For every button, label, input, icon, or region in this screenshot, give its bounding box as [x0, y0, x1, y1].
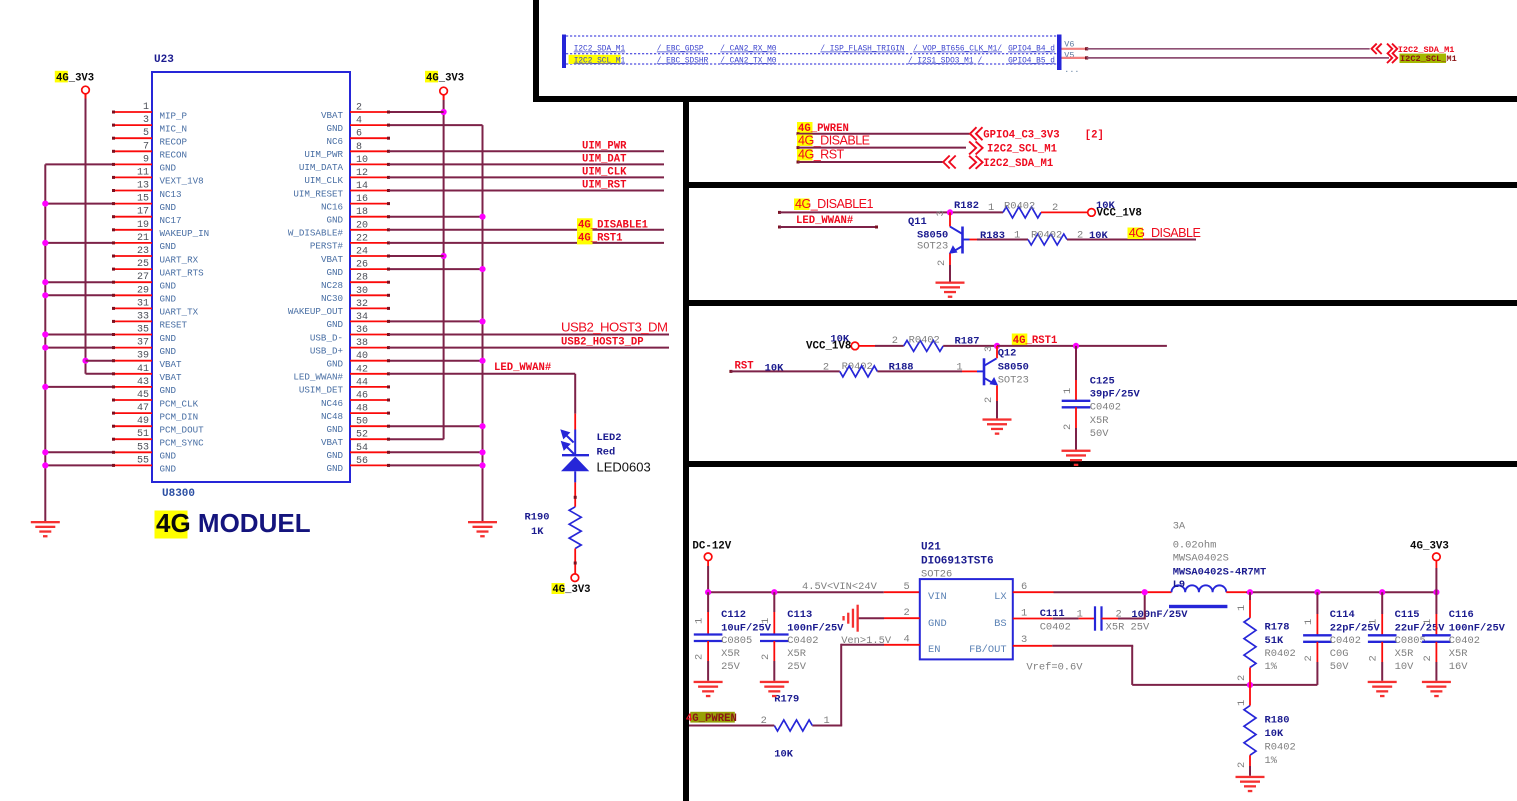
svg-text:GND: GND: [160, 163, 177, 174]
svg-text:UART_RX: UART_RX: [160, 254, 199, 265]
capacitor C125: [1062, 400, 1091, 402]
LED LED2 anode stub: [574, 414, 576, 430]
svg-text:PERST#: PERST#: [310, 241, 344, 252]
svg-text:24: 24: [356, 247, 368, 258]
svg-text:X5R: X5R: [1090, 415, 1109, 427]
capacitor C112 bottom stub: [707, 641, 709, 661]
capacitor C112: [694, 633, 723, 635]
capacitor C116 bottom stub: [1435, 642, 1437, 662]
svg-text:1: 1: [1077, 609, 1083, 621]
svg-text:UIM_RST: UIM_RST: [582, 180, 627, 192]
svg-text:20: 20: [356, 220, 368, 231]
svg-text:WAKEUP_IN: WAKEUP_IN: [160, 228, 210, 239]
svg-text:USIM_DET: USIM_DET: [299, 385, 344, 396]
wire VCC_1V8 to R187: [859, 345, 875, 347]
svg-text:LED_WWAN#: LED_WWAN#: [293, 372, 343, 383]
U23 pin 32 stub: [350, 307, 389, 309]
IC U23 body: [152, 72, 350, 482]
wire U23 pin 34 GND: [389, 320, 483, 322]
svg-text:2: 2: [983, 397, 995, 403]
wire U21 EN pin: [884, 644, 920, 646]
svg-text:55: 55: [137, 455, 149, 466]
U23 pin 23 stub: [113, 255, 152, 257]
wire U23 pin 39 VBAT: [86, 360, 114, 362]
junction dot Q12 collector: [994, 343, 1000, 349]
wire U23 pin 2 VBAT: [389, 111, 444, 113]
svg-text:18: 18: [356, 207, 368, 218]
svg-text:GND: GND: [160, 202, 177, 213]
capacitor C114 bottom stub: [1316, 642, 1318, 662]
svg-text:C0402: C0402: [1449, 635, 1480, 647]
svg-text:2: 2: [892, 335, 898, 347]
resistor R180 top stub: [1249, 685, 1251, 706]
LED LED2 cathode stub: [574, 482, 576, 506]
ground symbol C113: [760, 681, 789, 697]
U23 pin 13 stub: [113, 190, 152, 192]
svg-text:25V: 25V: [721, 661, 740, 673]
wire U23 pin 27 GND: [45, 281, 113, 283]
svg-text:Q12: Q12: [998, 348, 1017, 360]
svg-text:15: 15: [137, 194, 149, 205]
U23 pin 29 stub: [113, 294, 152, 296]
svg-text:26: 26: [356, 260, 368, 271]
wire VIN rail: [708, 591, 884, 593]
svg-text:2: 2: [823, 362, 829, 374]
svg-text:R0402: R0402: [1031, 230, 1062, 242]
junction dot Q11 collector: [947, 209, 953, 215]
U23 pin 27 stub: [113, 281, 152, 283]
ground symbol U21 GND pin: [842, 605, 858, 632]
junction dot left bus pin 55: [42, 462, 48, 468]
svg-text:LED0603: LED0603: [597, 460, 651, 475]
svg-text:10K: 10K: [765, 363, 784, 375]
wire RST to R188: [729, 370, 732, 373]
svg-text:31: 31: [137, 298, 149, 309]
resistor R178: [1244, 618, 1256, 668]
node 4G_DISABLE1 label: [577, 218, 593, 231]
svg-text:45: 45: [137, 390, 149, 401]
junction dot FB R178 bottom: [1247, 682, 1253, 688]
U23 pin 12 stub: [350, 176, 389, 178]
svg-text:I2C2_SCL_M1: I2C2_SCL_M1: [987, 144, 1057, 156]
svg-text:RECOP: RECOP: [160, 137, 188, 148]
svg-text:C116: C116: [1449, 609, 1474, 621]
svg-text:C0805: C0805: [721, 635, 752, 647]
svg-text:Red: Red: [597, 447, 616, 459]
svg-text:GND: GND: [326, 123, 343, 134]
junction dot C116 top: [1433, 589, 1439, 595]
U23 pin 49 stub: [113, 425, 152, 427]
svg-text:DIO6913TST6: DIO6913TST6: [921, 556, 994, 568]
svg-text:MWSA0402S-4R7MT: MWSA0402S-4R7MT: [1173, 566, 1267, 578]
svg-text:C112: C112: [721, 609, 746, 621]
svg-text:34: 34: [356, 312, 368, 323]
svg-text:U21: U21: [921, 542, 941, 554]
node 4G_RST1 label sec4: [1012, 334, 1028, 346]
svg-text:21: 21: [137, 233, 149, 244]
capacitor C116: [1422, 634, 1451, 636]
svg-text:100nF/25V: 100nF/25V: [1449, 623, 1506, 635]
wire net LED_WWAN#: [389, 373, 575, 375]
svg-text:1: 1: [1062, 388, 1074, 394]
svg-text:X5R: X5R: [1449, 648, 1468, 660]
svg-text:PCM_CLK: PCM_CLK: [160, 398, 199, 409]
offpage connector I2C2_SDA_M1 left chevron: [1372, 44, 1377, 54]
svg-text:G_PWREN: G_PWREN: [692, 713, 737, 725]
svg-text:1: 1: [694, 618, 706, 624]
capacitor C116 top stub: [1435, 592, 1437, 614]
svg-text:/ VOP_BT656_CLK_M1/: / VOP_BT656_CLK_M1/: [913, 46, 1002, 54]
node 4G_DISABLE label: [797, 135, 813, 147]
svg-text:50V: 50V: [1090, 428, 1109, 440]
svg-text:4G_DISABLE: 4G_DISABLE: [1129, 226, 1201, 240]
junction dot right bus pin 50: [479, 423, 485, 429]
capacitor C113: [760, 633, 789, 635]
svg-text:53: 53: [137, 442, 149, 453]
svg-text:LED_WWAN#: LED_WWAN#: [494, 362, 552, 374]
svg-text:4G_DISABLE: 4G_DISABLE: [798, 134, 870, 148]
svg-text:Vref=0.6V: Vref=0.6V: [1026, 662, 1083, 674]
wire U23 pin 54 GND: [389, 451, 483, 453]
wire U23 pin 9 GND: [45, 163, 113, 165]
U23 pin 40 stub: [350, 360, 389, 362]
svg-text:4G_3V3: 4G_3V3: [426, 73, 464, 85]
wire I2C2_SCL_M1: [1085, 56, 1088, 59]
wire U23 pin 29 GND: [45, 294, 113, 296]
resistor R180: [1244, 706, 1256, 756]
U23 pin 5 stub: [113, 137, 152, 139]
resistor R182: [1003, 207, 1041, 218]
svg-text:14: 14: [356, 181, 368, 192]
R190 bottom stub: [574, 549, 576, 574]
svg-text:R0402: R0402: [909, 335, 940, 347]
svg-text:1%: 1%: [1265, 755, 1278, 767]
svg-text:41: 41: [137, 364, 149, 375]
offpage connector I2C2_SCL_M1 right chevron: [1387, 53, 1392, 63]
capacitor C111: [1094, 606, 1096, 630]
svg-text:100nF/25V: 100nF/25V: [787, 623, 844, 635]
power terminal 4G_3V3 right: [440, 87, 448, 95]
svg-text:I2C2_SCL_M1: I2C2_SCL_M1: [1400, 54, 1457, 64]
svg-text:GND: GND: [326, 215, 343, 226]
U23 pin 44 stub: [350, 386, 389, 388]
svg-text:4G_DISABLE1: 4G_DISABLE1: [578, 219, 648, 231]
power terminal 4G_3V3 left: [82, 86, 90, 94]
wire net UIM_PWR: [389, 150, 664, 152]
svg-text:SOT26: SOT26: [921, 569, 952, 581]
svg-text:BS: BS: [994, 618, 1006, 630]
svg-text:22uF/25V: 22uF/25V: [1395, 623, 1446, 635]
U23 pin 26 stub: [350, 268, 389, 270]
svg-text:C0402: C0402: [1330, 635, 1361, 647]
junction dot left bus pin 35: [42, 331, 48, 337]
junction dot C113 top: [771, 589, 777, 595]
U23 pin 25 stub: [113, 268, 152, 270]
svg-text:13: 13: [137, 181, 149, 192]
node 4G_RST1 label: [577, 231, 593, 244]
svg-text:0.02ohm: 0.02ohm: [1173, 540, 1217, 552]
svg-text:GND: GND: [160, 281, 177, 292]
svg-text:X5R: X5R: [787, 648, 806, 660]
wire L9 to output rail: [1226, 591, 1246, 593]
node 4G_DISABLE label sec3: [1128, 228, 1144, 240]
svg-text:NC13: NC13: [160, 189, 182, 200]
svg-text:GND: GND: [326, 424, 343, 435]
svg-text:EN: EN: [928, 644, 940, 656]
U23 pin 15 stub: [113, 203, 152, 205]
wire U23 pin 50 GND: [389, 425, 483, 427]
svg-text:/ EBC_GDSP: / EBC_GDSP: [657, 46, 704, 54]
U23 pin 31 stub: [113, 307, 152, 309]
svg-text:NC30: NC30: [321, 293, 343, 304]
svg-text:I2C2_SCL_M1: I2C2_SCL_M1: [574, 57, 626, 65]
svg-text:S8050: S8050: [998, 362, 1029, 374]
svg-text:VBAT: VBAT: [321, 437, 344, 448]
svg-text:2: 2: [1236, 675, 1248, 681]
junction dot VBAT pin24: [441, 253, 447, 259]
U23 pin 10 stub: [350, 163, 389, 165]
svg-text:1: 1: [760, 618, 772, 624]
svg-text:U8300: U8300: [162, 488, 195, 500]
svg-text:C115: C115: [1395, 609, 1420, 621]
U23 pin 46 stub: [350, 399, 389, 401]
svg-text:4G_3V3: 4G_3V3: [1410, 541, 1449, 553]
wire U21 GND pin: [884, 617, 920, 619]
wire U23 pin 35 GND: [45, 334, 113, 336]
wire right GND bus vertical: [482, 125, 484, 521]
junction dot left bus pin 29: [42, 292, 48, 298]
wire LED_WWAN# vertical: [574, 374, 576, 414]
svg-text:USB2_HOST3_DP: USB2_HOST3_DP: [561, 337, 644, 349]
wire U23 pin 55 GND: [45, 464, 113, 466]
wire 4G_PWREN sec5: [689, 725, 774, 727]
svg-text:LED_WWAN#: LED_WWAN#: [796, 215, 854, 227]
wire R187 to Q12 collector: [943, 345, 997, 347]
svg-text:1: 1: [824, 715, 830, 727]
resistor R183: [1028, 234, 1067, 245]
svg-text:SOT23: SOT23: [917, 241, 948, 253]
bus table right bar: [1057, 35, 1062, 71]
capacitor C113 top stub: [773, 592, 775, 612]
wire 4G_DISABLE1 to R182: [778, 211, 781, 214]
svg-text:22: 22: [356, 233, 368, 244]
capacitor C125 bottom stub: [1075, 407, 1077, 428]
svg-text:C0G: C0G: [1330, 648, 1349, 660]
svg-text:2: 2: [936, 260, 948, 266]
power terminal 4G_3V3 sec5: [1433, 553, 1441, 561]
offpage connector I2C2_SDA_M1 right chevron: [1387, 44, 1392, 54]
ground symbol R180: [1236, 776, 1265, 792]
svg-text:UIM_DATA: UIM_DATA: [299, 162, 344, 173]
wire I2C2_SDA_M1 stub: [1062, 48, 1087, 50]
svg-text:UIM_DAT: UIM_DAT: [582, 153, 627, 165]
transistor Q11: [949, 212, 951, 226]
svg-text:10K: 10K: [774, 749, 793, 761]
U23 pin 1 stub: [113, 111, 152, 113]
node 4G_RST label: [797, 149, 813, 161]
U23 pin 4 stub: [350, 124, 389, 126]
wire I2C2_SCL_M1 stub: [1062, 57, 1087, 59]
svg-text:VCC_1V8: VCC_1V8: [1097, 208, 1142, 220]
svg-text:19: 19: [137, 220, 149, 231]
wire I2C2_SDA_M1: [1085, 47, 1088, 50]
wire U23 pin 43 GND: [45, 386, 113, 388]
node I2C2_SCL_M1 label top: [1400, 54, 1447, 63]
svg-text:R180: R180: [1265, 715, 1290, 727]
svg-text:1: 1: [988, 202, 994, 214]
U23 pin 55 stub: [113, 464, 152, 466]
junction dot left bus pin 37: [42, 345, 48, 351]
resistor R178 top stub: [1249, 592, 1251, 600]
capacitor C113 bottom stub: [773, 641, 775, 661]
svg-text:8: 8: [356, 142, 362, 153]
U23 pin 2 stub: [350, 111, 389, 113]
svg-text:1: 1: [1422, 619, 1434, 625]
ground symbol left bus: [31, 521, 60, 537]
svg-text:16: 16: [356, 194, 368, 205]
svg-text:NC16: NC16: [321, 201, 343, 212]
capacitor C114: [1303, 634, 1332, 636]
svg-text:51K: 51K: [1265, 635, 1284, 647]
svg-text:52: 52: [356, 430, 368, 441]
svg-text:...: ...: [1064, 65, 1079, 75]
U23 pin 16 stub: [350, 203, 389, 205]
svg-text:5: 5: [904, 581, 910, 593]
svg-text:32: 32: [356, 299, 368, 310]
svg-text:WAKEUP_OUT: WAKEUP_OUT: [288, 306, 344, 317]
power terminal VCC_1V8 sec3: [1088, 209, 1096, 217]
U23 pin 8 stub: [350, 150, 389, 152]
svg-text:MWSA0402S: MWSA0402S: [1173, 553, 1229, 565]
inductor L9: [1172, 585, 1227, 592]
svg-text:4G_RST: 4G_RST: [798, 148, 845, 162]
U23 pin 9 stub: [113, 163, 152, 165]
svg-text:PCM_SYNC: PCM_SYNC: [160, 438, 205, 449]
svg-text:R190: R190: [525, 512, 550, 524]
svg-text:UART_RTS: UART_RTS: [160, 267, 205, 278]
U23 pin 33 stub: [113, 320, 152, 322]
wire U23 pin 4 GND: [389, 124, 483, 126]
U23 pin 34 stub: [350, 320, 389, 322]
U23 pin 51 stub: [113, 438, 152, 440]
bus table left bar: [562, 35, 566, 69]
power terminal VCC_1V8 sec4: [851, 342, 859, 350]
junction dot 4G_3V3 left pin39: [82, 358, 88, 364]
junction dot right bus pin 54: [479, 449, 485, 455]
svg-text:2: 2: [1422, 655, 1434, 661]
U23 pin 35 stub: [113, 334, 152, 336]
U23 pin 48 stub: [350, 412, 389, 414]
svg-text:25: 25: [137, 259, 149, 270]
capacitor C115 top stub: [1381, 592, 1383, 614]
junction dot VBAT pin2: [441, 109, 447, 115]
svg-text:R182: R182: [954, 200, 979, 212]
svg-text:MIC_N: MIC_N: [160, 123, 188, 134]
U23 pin 11 stub: [113, 176, 152, 178]
svg-text:40: 40: [356, 351, 368, 362]
wire U23 pin 56 GND: [389, 464, 483, 466]
capacitor C112 top stub: [707, 592, 709, 612]
svg-text:4G MODUEL: 4G MODUEL: [156, 508, 311, 538]
U23 pin 53 stub: [113, 451, 152, 453]
svg-text:C0402: C0402: [1040, 622, 1071, 634]
svg-text:GND: GND: [326, 267, 343, 278]
IC U21 body: [920, 579, 1013, 659]
svg-text:R183: R183: [980, 230, 1005, 242]
wire 4G_RST: [797, 161, 800, 164]
wire net UIM_RST: [389, 190, 664, 192]
svg-text:/ CAN2_TX_M0: / CAN2_TX_M0: [720, 57, 776, 65]
U23 pin 22 stub: [350, 242, 389, 244]
svg-text:50: 50: [356, 417, 368, 428]
offpage connector I2C2_SDA_M1 chevron sec2: [969, 156, 976, 169]
svg-text:9: 9: [143, 154, 149, 165]
svg-text:11: 11: [137, 167, 149, 178]
U23 pin 36 stub: [350, 334, 389, 336]
junction dot C115 top: [1379, 589, 1385, 595]
U23 pin 38 stub: [350, 347, 389, 349]
ground symbol Q11: [936, 282, 965, 298]
svg-text:33: 33: [137, 311, 149, 322]
U23 pin 45 stub: [113, 399, 152, 401]
junction dot left bus pin 53: [42, 449, 48, 455]
svg-text:3: 3: [143, 115, 149, 126]
svg-text:NC6: NC6: [326, 136, 343, 147]
svg-text:51: 51: [137, 429, 149, 440]
U23 pin 14 stub: [350, 190, 389, 192]
svg-text:1: 1: [1303, 619, 1315, 625]
svg-text:UIM_PWR: UIM_PWR: [582, 140, 627, 152]
U23 pin 37 stub: [113, 347, 152, 349]
svg-text:NC46: NC46: [321, 398, 343, 409]
wire U23 pin 15 GND: [45, 203, 113, 205]
svg-text:7: 7: [143, 141, 149, 152]
svg-text:54: 54: [356, 443, 368, 454]
svg-text:GND: GND: [160, 333, 177, 344]
U23 pin 50 stub: [350, 425, 389, 427]
svg-text:46: 46: [356, 391, 368, 402]
capacitor C115: [1368, 634, 1397, 636]
svg-text:/ EBC_SDSHR: / EBC_SDSHR: [657, 57, 709, 65]
svg-text:C113: C113: [787, 609, 812, 621]
svg-text:49: 49: [137, 416, 149, 427]
svg-text:2: 2: [1368, 655, 1380, 661]
node 4G_PWREN label: [797, 122, 813, 133]
wire U23 pin 40 GND: [389, 360, 483, 362]
node 4G_DISABLE1 label sec3: [794, 199, 810, 211]
svg-text:GND: GND: [326, 450, 343, 461]
wire net 4G_RST1: [389, 242, 664, 244]
svg-text:4G_3V3: 4G_3V3: [56, 73, 94, 85]
svg-text:50V: 50V: [1330, 661, 1349, 673]
junction dot C112 top: [705, 589, 711, 595]
U23 pin 20 stub: [350, 229, 389, 231]
svg-text:GND: GND: [160, 294, 177, 305]
junction dot left bus pin 21: [42, 240, 48, 246]
svg-text:4: 4: [904, 634, 910, 646]
svg-text:UIM_RESET: UIM_RESET: [293, 188, 343, 199]
wire U23 pin 24 VBAT: [389, 255, 444, 257]
border frame top-box left edge: [533, 0, 539, 102]
svg-text:VCC_1V8: VCC_1V8: [806, 341, 851, 353]
svg-text:2: 2: [760, 654, 772, 660]
resistor R187: [904, 340, 944, 351]
capacitor C115 bottom stub: [1381, 642, 1383, 662]
svg-text:UIM_CLK: UIM_CLK: [304, 175, 343, 186]
wire 4G_3V3 left vertical: [85, 94, 87, 99]
svg-text:MIP_P: MIP_P: [160, 110, 188, 121]
svg-text:C0402: C0402: [787, 635, 818, 647]
